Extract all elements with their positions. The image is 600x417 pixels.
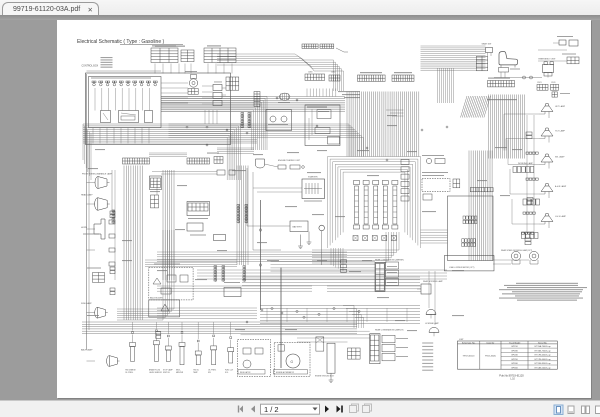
svg-text:ENGINE ALTERNATOR: ENGINE ALTERNATOR (276, 370, 295, 373)
svg-text:OIL PRES.: OIL PRES. (125, 372, 134, 374)
svg-text:GP35K: GP35K (511, 367, 518, 369)
svg-text:ENGINE GROUND BOLT: ENGINE GROUND BOLT (315, 375, 334, 377)
svg-text:BACK BUZZER: BACK BUZZER (150, 296, 163, 299)
svg-text:REAR COMBINATION LAMP(RH): REAR COMBINATION LAMP(RH) (375, 258, 404, 261)
svg-text:HORN: HORN (81, 227, 87, 229)
svg-text:G: G (290, 360, 293, 364)
svg-text:Used for: Used for (486, 341, 494, 344)
svg-text:REAR SPEED WORKING LAMP(OPT): REAR SPEED WORKING LAMP(OPT) (501, 249, 533, 252)
svg-text:CONTROL BOX: CONTROL BOX (81, 65, 98, 67)
svg-text:Truck Model: Truck Model (508, 341, 520, 344)
svg-text:SWITCH: SWITCH (163, 372, 170, 374)
svg-text:Electrical Schematic ( Type :: Electrical Schematic ( Type : Gasoline ) (77, 39, 164, 45)
svg-text:LEVEL SENSOR: LEVEL SENSOR (149, 372, 163, 374)
svg-text:A.H.S LAMP: A.H.S LAMP (555, 185, 567, 188)
svg-text:ET31A-70001-up: ET31A-70001-up (534, 345, 551, 348)
svg-text:HEAD LAMP: HEAD LAMP (81, 193, 93, 196)
svg-text:LOAD & SPEED METER (OPT): LOAD & SPEED METER (OPT) (449, 266, 475, 269)
svg-text:1 / 2: 1 / 2 (264, 405, 279, 414)
svg-text:LIFT LAMP: LIFT LAMP (555, 105, 566, 108)
svg-text:REAR COMBINATION LAMP(LH): REAR COMBINATION LAMP(LH) (375, 328, 404, 331)
svg-text:REAR WORKING LAMP: REAR WORKING LAMP (423, 280, 443, 283)
svg-text:WORKING LAMP: WORKING LAMP (518, 162, 534, 165)
svg-text:99719-61120: 99719-61120 (462, 355, 475, 357)
svg-text:MENTER: MENTER (176, 372, 184, 374)
svg-text:TILT LAMP: TILT LAMP (555, 129, 566, 132)
svg-text:STARTER: STARTER (308, 175, 318, 178)
svg-text:EMERGENCY UNIT: EMERGENCY UNIT (538, 58, 556, 60)
svg-text:SEAT SW: SEAT SW (481, 42, 492, 45)
svg-text:CN3: CN3 (308, 71, 313, 73)
svg-text:W/L LAMP: W/L LAMP (555, 155, 565, 158)
svg-text:CN11: CN11 (551, 82, 555, 84)
svg-text:FRONT TURN/CLEARANCE LAMP: FRONT TURN/CLEARANCE LAMP (82, 172, 113, 175)
svg-text:LIST: LIST (459, 339, 464, 341)
svg-text:ET14B-50001-up: ET14B-50001-up (534, 367, 551, 369)
svg-text:BATTERY: BATTERY (292, 225, 302, 228)
svg-text:BACK LAMP: BACK LAMP (81, 348, 93, 351)
svg-text:TEMP: TEMP (193, 372, 199, 374)
svg-text:L.H.S LAMP: L.H.S LAMP (555, 215, 567, 218)
svg-text:ENGINE THERMO UNIT: ENGINE THERMO UNIT (278, 160, 301, 162)
svg-text:Pub.No.99719-61120: Pub.No.99719-61120 (499, 373, 524, 377)
svg-text:REGULATOR: REGULATOR (240, 370, 251, 373)
svg-text:LICENSE LAMP: LICENSE LAMP (425, 322, 440, 325)
svg-text:SW: SW (208, 372, 211, 374)
svg-text:CN2: CN2 (331, 71, 336, 73)
svg-text:L.10: L.10 (510, 378, 515, 380)
svg-text:SIDE LAMP: SIDE LAMP (81, 302, 92, 305)
svg-text:PG15-35(K): PG15-35(K) (485, 355, 496, 357)
svg-text:SOL: SOL (225, 372, 228, 374)
svg-text:Schematic No.: Schematic No. (461, 341, 475, 344)
svg-text:CN21: CN21 (537, 82, 542, 84)
svg-text:Serial No.: Serial No. (538, 341, 548, 344)
